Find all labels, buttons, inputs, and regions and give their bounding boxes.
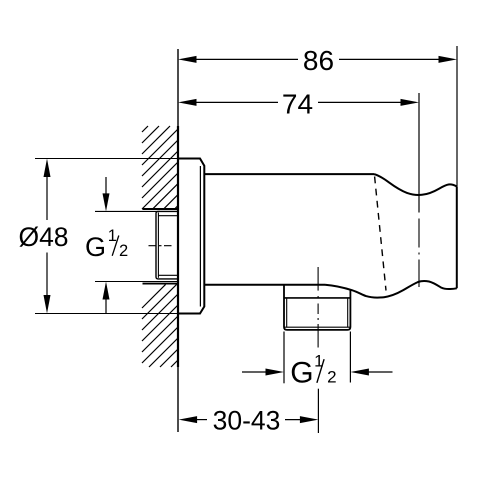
left G1/2 top extension line [95,210,160,212]
svg-text:G: G [85,232,106,262]
bottom G1/2 right arrow [366,371,393,373]
svg-text:86: 86 [303,45,334,76]
svg-text:G: G [290,357,313,390]
left G1/2 bottom extension line [95,281,178,283]
dimension 74 line [194,101,403,103]
svg-text:74: 74 [282,88,313,119]
left G1/2 upper arrow [105,177,107,196]
dimension 86 line [194,58,441,60]
diameter 48 up arrowhead [44,159,51,178]
svg-text:2: 2 [119,242,128,260]
svg-text:30-43: 30-43 [213,405,281,435]
dimension 30-43 right arrowhead [300,416,319,423]
holder centreline [418,219,420,288]
dimension 74 right arrowhead [401,99,420,106]
dimension 30-43 line [193,419,303,421]
left G1/2 lower arrow [105,298,107,314]
wall surface line [177,49,179,432]
extension line right (86) [456,46,458,186]
holder bottom curve [325,281,457,298]
dimension 74 left arrowhead [178,99,197,106]
flange (escutcheon) outline [178,159,204,314]
bottom G1/2 right extension [349,332,351,383]
outlet centreline [317,267,319,348]
outlet thread G1/2 [284,285,350,330]
wall hole lower edge [143,283,179,285]
rear inlet thread root lines [158,213,178,278]
dimension 30-43 left arrowhead [179,416,198,423]
svg-text:1: 1 [108,227,117,245]
dimension 86 left arrowhead [178,56,197,63]
svg-text:Ø48: Ø48 [18,222,68,252]
diameter 48 dimension line [46,175,48,297]
wall hatching lower block [142,284,178,367]
diameter 48 bottom extension line [35,313,178,315]
diameter 48 down arrowhead [44,295,51,314]
body bottom outline [204,284,325,286]
diameter 48 top extension line [35,158,178,160]
hidden edge dashed [375,177,386,291]
extension line holder centre (74) [418,93,420,213]
body top outline [204,173,374,175]
rear inlet thread G1/2 crest outline [156,211,178,279]
holder right edge [456,186,458,288]
bottom G1/2 left extension [283,332,285,384]
wall hatching upper block [142,126,178,209]
rear inlet centreline [149,245,173,247]
svg-text:2: 2 [327,368,336,387]
bottom G1/2 left arrow [242,371,269,373]
holder top curve [374,174,457,195]
wall hole upper edge [143,208,179,210]
dimension 86 right arrowhead [439,56,458,63]
flange inner edge [199,166,201,307]
